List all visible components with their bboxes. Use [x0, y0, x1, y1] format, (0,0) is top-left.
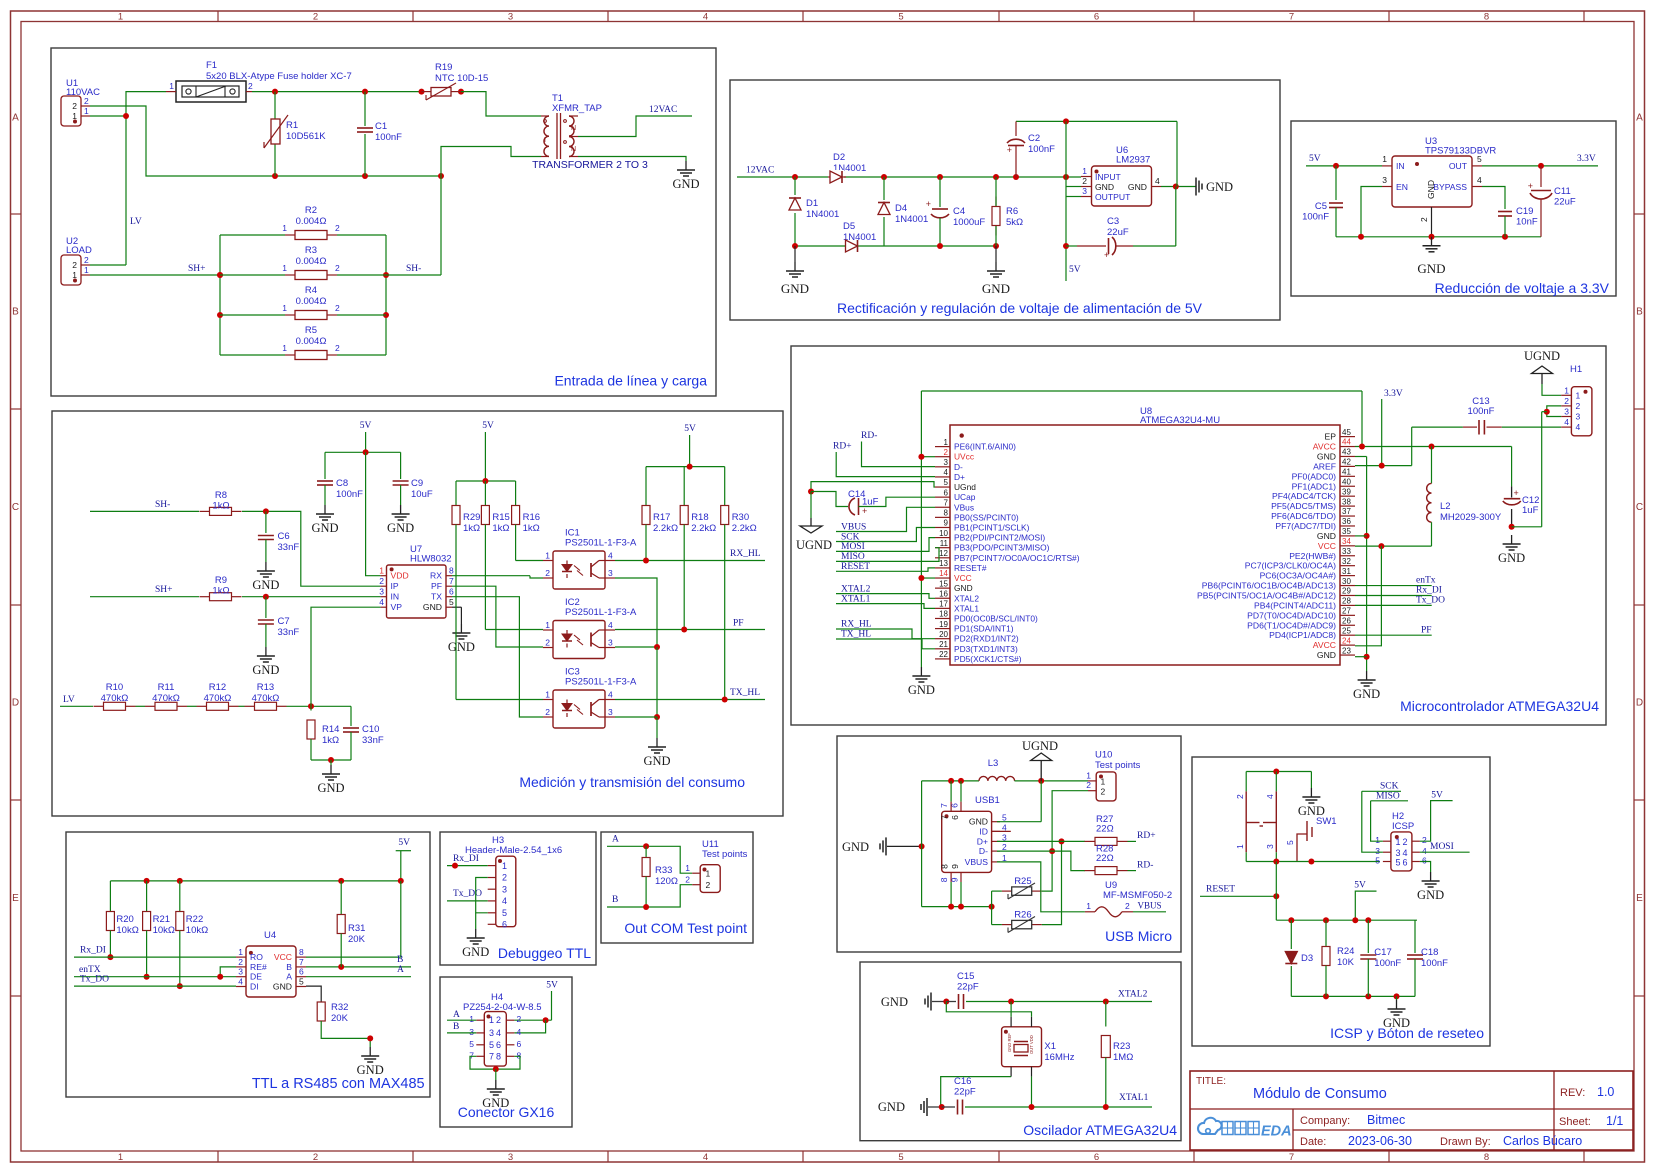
- svg-text:R8: R8: [215, 490, 227, 501]
- svg-text:PD6(T1/OC4D#/ADC9): PD6(T1/OC4D#/ADC9): [1247, 620, 1336, 630]
- svg-text:3: 3: [502, 884, 507, 894]
- svg-text:5V: 5V: [398, 838, 410, 848]
- svg-text:30: 30: [1342, 577, 1351, 586]
- svg-text:+: +: [1528, 181, 1533, 191]
- svg-text:MF-MSMF050-2: MF-MSMF050-2: [1103, 890, 1172, 901]
- svg-text:C2: C2: [1028, 133, 1040, 144]
- svg-text:PS2501L-1-F3-A: PS2501L-1-F3-A: [565, 607, 637, 618]
- svg-text:38: 38: [1342, 497, 1351, 506]
- svg-text:D5: D5: [843, 221, 855, 232]
- svg-text:C3: C3: [1107, 216, 1119, 227]
- svg-text:5: 5: [489, 1040, 494, 1050]
- svg-text:PD2(RXD1/INT2): PD2(RXD1/INT2): [954, 634, 1019, 644]
- svg-text:C1: C1: [375, 121, 387, 132]
- svg-text:1: 1: [1082, 166, 1087, 176]
- svg-text:8: 8: [944, 509, 949, 518]
- svg-text:R6: R6: [1006, 206, 1018, 217]
- svg-text:39: 39: [1342, 487, 1351, 496]
- svg-text:RD+: RD+: [833, 442, 852, 452]
- svg-text:0.004Ω: 0.004Ω: [296, 256, 327, 267]
- svg-text:6: 6: [517, 1039, 522, 1049]
- svg-text:7: 7: [940, 815, 950, 820]
- svg-text:C8: C8: [336, 478, 348, 489]
- svg-text:2: 2: [944, 448, 949, 457]
- svg-text:R25: R25: [1014, 876, 1031, 887]
- svg-text:5: 5: [469, 1039, 474, 1049]
- svg-text:R14: R14: [322, 724, 339, 735]
- svg-text:2: 2: [545, 638, 550, 648]
- svg-text:R17: R17: [653, 512, 670, 523]
- svg-text:PD4(ICP1/ADC8): PD4(ICP1/ADC8): [1269, 630, 1336, 640]
- svg-text:1N4001: 1N4001: [895, 214, 928, 225]
- svg-text:3: 3: [608, 638, 613, 648]
- svg-text:OUT VDD: OUT VDD: [1029, 1035, 1034, 1054]
- svg-text:GND: GND: [387, 521, 414, 535]
- svg-text:MOSI: MOSI: [841, 542, 865, 552]
- svg-text:Entrada de línea y carga: Entrada de línea y carga: [554, 373, 707, 389]
- svg-text:R15: R15: [492, 512, 509, 523]
- svg-text:5: 5: [299, 977, 304, 987]
- svg-text:8: 8: [940, 864, 950, 869]
- svg-text:2: 2: [545, 707, 550, 717]
- svg-text:2: 2: [379, 576, 384, 586]
- svg-text:C10: C10: [362, 724, 379, 735]
- svg-text:XTAL1: XTAL1: [954, 603, 979, 613]
- svg-text:1: 1: [545, 620, 550, 630]
- svg-text:2: 2: [72, 260, 77, 270]
- svg-text:SCK: SCK: [841, 532, 860, 542]
- svg-text:1: 1: [282, 303, 287, 313]
- svg-text:43: 43: [1342, 448, 1351, 457]
- svg-text:3: 3: [469, 1027, 474, 1037]
- svg-text:Microcontrolador ATMEGA32U4: Microcontrolador ATMEGA32U4: [1400, 698, 1599, 714]
- svg-text:B: B: [453, 1022, 459, 1032]
- svg-text:SH+: SH+: [188, 264, 206, 274]
- svg-text:3.3V: 3.3V: [1577, 154, 1596, 164]
- svg-text:5: 5: [1375, 856, 1380, 866]
- svg-text:37: 37: [1342, 507, 1351, 516]
- svg-text:1kΩ: 1kΩ: [523, 523, 540, 534]
- svg-text:6: 6: [950, 815, 960, 820]
- svg-text:NTC 10D-15: NTC 10D-15: [435, 73, 488, 84]
- svg-text:C: C: [12, 502, 19, 513]
- svg-text:1uF: 1uF: [1522, 505, 1539, 516]
- svg-text:4: 4: [517, 1027, 522, 1037]
- svg-text:44: 44: [1342, 438, 1351, 447]
- svg-text:HLW8032: HLW8032: [410, 554, 452, 565]
- svg-text:MH2029-300Y: MH2029-300Y: [1440, 512, 1502, 523]
- svg-text:UGND: UGND: [1022, 739, 1058, 753]
- svg-text:2: 2: [1086, 780, 1091, 790]
- svg-text:0.004Ω: 0.004Ω: [296, 216, 327, 227]
- svg-text:2: 2: [335, 343, 340, 353]
- svg-text:4: 4: [944, 468, 949, 477]
- svg-text:4: 4: [608, 620, 613, 630]
- svg-text:Oscilador ATMEGA32U4: Oscilador ATMEGA32U4: [1023, 1122, 1177, 1138]
- svg-text:Carlos Búcaro: Carlos Búcaro: [1503, 1134, 1582, 1148]
- svg-text:1: 1: [1235, 844, 1245, 849]
- svg-text:120Ω: 120Ω: [655, 876, 678, 887]
- svg-text:L3: L3: [988, 758, 999, 769]
- svg-text:0.004Ω: 0.004Ω: [296, 296, 327, 307]
- svg-text:2: 2: [1576, 401, 1581, 411]
- svg-text:Tx_DO: Tx_DO: [80, 975, 109, 985]
- svg-text:5V: 5V: [546, 981, 558, 991]
- svg-text:21: 21: [939, 640, 948, 649]
- svg-text:PD0(OC0B/SCL/INT0): PD0(OC0B/SCL/INT0): [954, 613, 1038, 623]
- svg-text:7: 7: [489, 1051, 494, 1061]
- svg-text:GND: GND: [1498, 551, 1525, 565]
- svg-text:C11: C11: [1554, 186, 1571, 197]
- svg-text:33nF: 33nF: [362, 735, 384, 746]
- svg-text:R4: R4: [305, 285, 317, 296]
- svg-text:MISO: MISO: [1376, 791, 1400, 801]
- svg-text:100nF: 100nF: [1374, 958, 1401, 969]
- svg-text:45: 45: [1342, 428, 1351, 437]
- svg-text:23: 23: [1342, 646, 1351, 655]
- svg-text:D+: D+: [977, 836, 988, 846]
- svg-text:GND: GND: [1317, 531, 1336, 541]
- svg-text:PF: PF: [733, 619, 744, 629]
- svg-text:USB Micro: USB Micro: [1105, 928, 1172, 944]
- svg-text:6: 6: [1403, 858, 1408, 868]
- svg-text:12: 12: [939, 549, 948, 558]
- svg-text:TPS79133DBVR: TPS79133DBVR: [1425, 146, 1496, 157]
- svg-text:E: E: [12, 893, 19, 904]
- svg-text:4: 4: [703, 1152, 708, 1163]
- svg-text:GND: GND: [908, 683, 935, 697]
- svg-text:5V: 5V: [360, 421, 372, 431]
- svg-text:41: 41: [1342, 468, 1351, 477]
- svg-text:8: 8: [1484, 1152, 1489, 1163]
- svg-text:3: 3: [238, 967, 243, 977]
- svg-text:SH-: SH-: [406, 264, 421, 274]
- svg-text:VCC: VCC: [954, 573, 972, 583]
- svg-text:1: 1: [1564, 385, 1569, 395]
- svg-text:7: 7: [449, 576, 454, 586]
- svg-text:R26: R26: [1014, 910, 1031, 921]
- svg-text:5: 5: [1477, 154, 1482, 164]
- svg-text:PD1(SDA/INT1): PD1(SDA/INT1): [954, 624, 1014, 634]
- svg-text:TX: TX: [431, 592, 442, 602]
- svg-text:R10: R10: [106, 682, 123, 693]
- svg-text:GND: GND: [643, 754, 670, 768]
- svg-text:1: 1: [84, 265, 89, 275]
- svg-text:22Ω: 22Ω: [1096, 824, 1114, 835]
- svg-text:R23: R23: [1113, 1041, 1130, 1052]
- svg-text:Rectificación y regulación de: Rectificación y regulación de voltaje de…: [837, 300, 1203, 316]
- svg-text:2: 2: [1422, 835, 1427, 845]
- svg-text:8: 8: [1484, 12, 1489, 23]
- svg-text:RX: RX: [430, 571, 442, 581]
- svg-text:3: 3: [1265, 844, 1275, 849]
- svg-text:1N4001: 1N4001: [806, 209, 839, 220]
- svg-text:VCC: VCC: [1318, 541, 1336, 551]
- svg-text:34: 34: [1342, 537, 1351, 546]
- svg-text:IP: IP: [391, 581, 399, 591]
- svg-text:Tx_DO: Tx_DO: [1416, 595, 1445, 605]
- svg-text:PF4(ADC4/TCK): PF4(ADC4/TCK): [1272, 491, 1336, 501]
- svg-text:100nF: 100nF: [1468, 406, 1495, 417]
- svg-text:22: 22: [939, 650, 948, 659]
- svg-text:GND: GND: [781, 281, 809, 296]
- svg-text:OUT: OUT: [1449, 161, 1468, 171]
- svg-text:D3: D3: [1301, 953, 1313, 964]
- svg-text:20: 20: [939, 630, 948, 639]
- svg-text:4: 4: [1265, 794, 1275, 799]
- svg-text:1: 1: [118, 1152, 123, 1163]
- svg-text:5: 5: [944, 478, 949, 487]
- svg-text:GND: GND: [881, 995, 908, 1009]
- svg-text:1: 1: [944, 438, 949, 447]
- svg-text:R1: R1: [286, 120, 298, 131]
- svg-text:TX_HL: TX_HL: [841, 630, 871, 640]
- svg-text:Date:: Date:: [1300, 1136, 1326, 1148]
- svg-text:5V: 5V: [1431, 791, 1443, 801]
- svg-text:2: 2: [706, 880, 711, 890]
- svg-text:2: 2: [72, 101, 77, 111]
- svg-text:2: 2: [1101, 787, 1106, 797]
- svg-text:2: 2: [335, 263, 340, 273]
- svg-text:R2: R2: [305, 205, 317, 216]
- svg-text:2: 2: [1235, 794, 1245, 799]
- svg-text:2: 2: [496, 1015, 501, 1025]
- svg-text:PF5(ADC5/TMS): PF5(ADC5/TMS): [1271, 501, 1336, 511]
- svg-text:9: 9: [949, 877, 959, 882]
- svg-text:3: 3: [508, 12, 513, 23]
- svg-text:R13: R13: [257, 682, 274, 693]
- svg-text:R21: R21: [153, 914, 170, 925]
- svg-text:PB6(PCINT6/OC1B/OC4B/ADC13): PB6(PCINT6/OC1B/OC4B/ADC13): [1202, 581, 1336, 591]
- svg-text:6: 6: [496, 1040, 501, 1050]
- svg-text:R19: R19: [435, 62, 452, 73]
- svg-text:TITLE:: TITLE:: [1196, 1076, 1226, 1087]
- svg-text:B: B: [397, 955, 403, 965]
- svg-text:RD-: RD-: [861, 431, 877, 441]
- svg-text:PF0(ADC0): PF0(ADC0): [1292, 471, 1337, 481]
- svg-text:6: 6: [1094, 1152, 1099, 1163]
- svg-text:RD-: RD-: [1137, 861, 1153, 871]
- svg-text:+: +: [926, 199, 931, 209]
- svg-text:U4: U4: [264, 930, 276, 941]
- svg-text:3: 3: [1082, 186, 1087, 196]
- svg-text:VBUS: VBUS: [1138, 901, 1162, 911]
- svg-text:6: 6: [1094, 12, 1099, 23]
- svg-text:GND: GND: [252, 578, 279, 592]
- svg-text:27: 27: [1342, 607, 1351, 616]
- svg-text:Rx_DI: Rx_DI: [1416, 586, 1442, 596]
- svg-text:PC7(ICP3/CLK0/OC4A): PC7(ICP3/CLK0/OC4A): [1245, 561, 1336, 571]
- svg-text:A: A: [453, 1010, 460, 1020]
- svg-text:D+: D+: [954, 472, 965, 482]
- svg-text:R29: R29: [463, 512, 480, 523]
- svg-text:D4: D4: [895, 203, 907, 214]
- svg-text:1uF: 1uF: [862, 497, 879, 508]
- svg-text:VBUS: VBUS: [841, 522, 866, 532]
- svg-text:1: 1: [379, 566, 384, 576]
- svg-text:1: 1: [169, 81, 174, 91]
- svg-text:GND: GND: [357, 1063, 384, 1077]
- svg-text:PB4(PCINT4/ADC11): PB4(PCINT4/ADC11): [1254, 600, 1336, 610]
- svg-text:INPUT: INPUT: [1095, 172, 1122, 182]
- svg-text:VDD: VDD: [391, 571, 409, 581]
- svg-text:I: I: [544, 137, 546, 144]
- svg-text:1: 1: [282, 223, 287, 233]
- svg-text:OUTPUT: OUTPUT: [1095, 192, 1131, 202]
- svg-text:B: B: [286, 962, 292, 972]
- svg-text:470kΩ: 470kΩ: [252, 693, 280, 704]
- svg-text:D1: D1: [806, 198, 818, 209]
- svg-text:100nF: 100nF: [1302, 212, 1329, 223]
- svg-text:3: 3: [1564, 407, 1569, 417]
- svg-text:R18: R18: [691, 512, 708, 523]
- svg-text:100nF: 100nF: [1028, 144, 1055, 155]
- svg-text:7: 7: [939, 803, 949, 808]
- svg-text:6: 6: [949, 803, 959, 808]
- svg-text:9: 9: [944, 519, 949, 528]
- svg-text:U10: U10: [1095, 750, 1112, 761]
- svg-text:1: 1: [1396, 837, 1401, 847]
- svg-text:2.2kΩ: 2.2kΩ: [653, 523, 678, 534]
- svg-text:N: N: [571, 146, 576, 153]
- svg-text:Rx_DI: Rx_DI: [453, 854, 479, 864]
- svg-text:PB1(PCINT1/SCLK): PB1(PCINT1/SCLK): [954, 522, 1030, 532]
- svg-text:REV:: REV:: [1560, 1087, 1585, 1099]
- svg-text:2: 2: [1082, 176, 1087, 186]
- svg-text:1: 1: [72, 270, 77, 280]
- svg-text:22uF: 22uF: [1107, 227, 1129, 238]
- svg-text:PF: PF: [1421, 626, 1432, 636]
- svg-text:PF6(ADC6/TDO): PF6(ADC6/TDO): [1271, 511, 1336, 521]
- svg-text:0.004Ω: 0.004Ω: [296, 336, 327, 347]
- svg-text:R5: R5: [305, 325, 317, 336]
- svg-text:C17: C17: [1374, 947, 1391, 958]
- svg-text:GND: GND: [448, 640, 475, 654]
- svg-text:12VAC: 12VAC: [746, 166, 774, 176]
- svg-text:Header-Male-2.54_1x6: Header-Male-2.54_1x6: [465, 845, 562, 856]
- svg-text:D: D: [1636, 698, 1643, 709]
- svg-text:XTAL1: XTAL1: [1119, 1093, 1149, 1103]
- svg-text:5: 5: [898, 1152, 903, 1163]
- svg-text:GND: GND: [982, 281, 1010, 296]
- svg-text:2: 2: [335, 223, 340, 233]
- svg-text:PD5(XCK1/CTS#): PD5(XCK1/CTS#): [954, 654, 1022, 664]
- svg-text:R11: R11: [158, 682, 175, 693]
- svg-text:R31: R31: [348, 923, 365, 934]
- svg-text:17: 17: [939, 600, 948, 609]
- svg-text:7: 7: [1289, 1152, 1294, 1163]
- svg-text:RESET#: RESET#: [954, 563, 987, 573]
- svg-text:22Ω: 22Ω: [1096, 853, 1114, 864]
- svg-text:100nF: 100nF: [1421, 958, 1448, 969]
- svg-text:XTAL1: XTAL1: [841, 594, 871, 604]
- svg-text:4: 4: [496, 1028, 501, 1038]
- svg-text:UGND: UGND: [1524, 349, 1560, 363]
- svg-text:PB3(PDO/PCINT3/MISO): PB3(PDO/PCINT3/MISO): [954, 543, 1050, 553]
- svg-text:DE: DE: [250, 972, 262, 982]
- svg-text:PF: PF: [431, 581, 442, 591]
- svg-text:Módulo de Consumo: Módulo de Consumo: [1253, 1086, 1387, 1102]
- svg-text:1: 1: [502, 861, 507, 871]
- svg-text:PD7(T0/OC4D/ADC10): PD7(T0/OC4D/ADC10): [1247, 610, 1336, 620]
- svg-text:AREF: AREF: [1313, 461, 1336, 471]
- svg-text:GND: GND: [969, 817, 988, 827]
- svg-text:2: 2: [1564, 396, 1569, 406]
- svg-text:GND REF: GND REF: [1007, 1033, 1012, 1052]
- svg-text:GND: GND: [1317, 451, 1336, 461]
- svg-text:BYPASS: BYPASS: [1433, 182, 1467, 192]
- svg-text:PS2501L-1-F3-A: PS2501L-1-F3-A: [565, 677, 637, 688]
- svg-text:Company:: Company:: [1300, 1115, 1350, 1127]
- svg-text:GND: GND: [1383, 1016, 1410, 1030]
- svg-text:XTAL2: XTAL2: [1118, 990, 1148, 1000]
- svg-text:4: 4: [379, 597, 384, 607]
- svg-text:10nF: 10nF: [1516, 217, 1538, 228]
- svg-text:TTL a RS485 con MAX485: TTL a RS485 con MAX485: [252, 1076, 425, 1092]
- svg-text:LM2937: LM2937: [1116, 155, 1150, 166]
- svg-text:6: 6: [1422, 856, 1427, 866]
- svg-text:GND: GND: [1426, 180, 1436, 199]
- svg-text:470kΩ: 470kΩ: [101, 693, 129, 704]
- svg-text:UVcc: UVcc: [954, 452, 974, 462]
- svg-text:C19: C19: [1516, 206, 1533, 217]
- svg-text:TX_HL: TX_HL: [730, 688, 760, 698]
- svg-text:22uF: 22uF: [1554, 197, 1576, 208]
- svg-text:Reducción de voltaje a 3.3V: Reducción de voltaje a 3.3V: [1435, 280, 1610, 296]
- svg-text:+: +: [862, 506, 867, 516]
- svg-text:4: 4: [608, 690, 613, 700]
- svg-text:2: 2: [1403, 837, 1408, 847]
- svg-text:35: 35: [1342, 527, 1351, 536]
- svg-text:C18: C18: [1421, 947, 1438, 958]
- svg-text:2.2kΩ: 2.2kΩ: [732, 523, 757, 534]
- svg-text:1: 1: [489, 1015, 494, 1025]
- svg-text:GND: GND: [311, 521, 338, 535]
- svg-text:XTAL2: XTAL2: [841, 584, 871, 594]
- svg-text:GND: GND: [482, 1096, 509, 1110]
- svg-text:100nF: 100nF: [375, 132, 402, 143]
- svg-text:A: A: [12, 113, 19, 124]
- svg-text:26: 26: [1342, 616, 1351, 625]
- svg-text:R24: R24: [1337, 946, 1354, 957]
- svg-text:RESET: RESET: [841, 562, 870, 572]
- svg-text:Rx_DI: Rx_DI: [80, 946, 106, 956]
- svg-text:RE#: RE#: [250, 962, 267, 972]
- svg-text:16MHz: 16MHz: [1044, 1052, 1074, 1063]
- svg-text:RO: RO: [250, 952, 263, 962]
- svg-text:1: 1: [238, 947, 243, 957]
- svg-text:28: 28: [1342, 597, 1351, 606]
- svg-text:C4: C4: [953, 206, 965, 217]
- svg-text:R22: R22: [186, 914, 203, 925]
- svg-text:IN: IN: [391, 592, 400, 602]
- svg-text:C15: C15: [957, 971, 974, 982]
- svg-text:MOSI: MOSI: [1430, 842, 1454, 852]
- svg-text:3: 3: [1382, 175, 1387, 185]
- svg-text:GND: GND: [1206, 180, 1233, 194]
- svg-text:UGND: UGND: [796, 538, 832, 552]
- svg-text:7: 7: [944, 498, 949, 507]
- svg-text:2: 2: [335, 303, 340, 313]
- svg-text:1kΩ: 1kΩ: [212, 501, 229, 512]
- svg-text:10uF: 10uF: [411, 489, 433, 500]
- svg-text:USB1: USB1: [975, 795, 1000, 806]
- svg-text:AVCC: AVCC: [1313, 640, 1336, 650]
- svg-text:VBus: VBus: [954, 502, 974, 512]
- svg-text:6: 6: [502, 920, 507, 930]
- svg-text:GND: GND: [954, 583, 973, 593]
- svg-text:20K: 20K: [348, 934, 366, 945]
